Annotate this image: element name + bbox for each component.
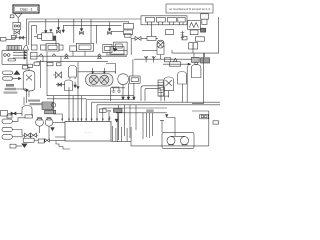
svg-text:- ... -: - ... - [85,130,91,134]
svg-text:Class - 3: Class - 3 [20,8,33,12]
svg-text:no rst schema of th pnt prwr s: no rst schema of th pnt prwr stn 1-3 [169,7,210,11]
